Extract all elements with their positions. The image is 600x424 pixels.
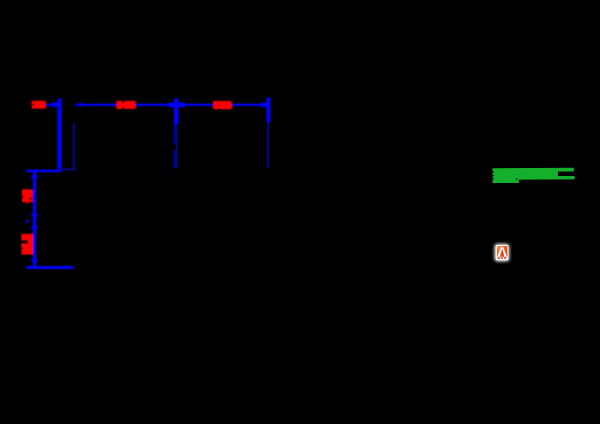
bottom extension line	[26, 266, 74, 269]
leader line of dim 20	[46, 104, 52, 106]
arrowhead down at bottom	[31, 259, 38, 266]
dimension line 140 right segment	[136, 104, 169, 106]
vertical dim top connector	[26, 170, 62, 173]
logo glow	[495, 244, 510, 261]
green wrench logo	[493, 168, 575, 183]
arrowhead left of dim 140	[74, 103, 82, 108]
logo letter A right leg	[502, 247, 507, 257]
arrowhead left of dim 105	[179, 103, 185, 108]
dimension text 20	[32, 101, 46, 109]
dimension line 105 right segment	[232, 104, 261, 106]
logo orange square	[497, 246, 508, 257]
arrowhead right of dim 140	[169, 103, 175, 108]
faint extension line at x176.5	[176, 124, 178, 168]
small blue mark left of arrow junction	[26, 220, 29, 223]
dimension text 105	[213, 101, 232, 109]
dimension line 105 left segment	[185, 104, 214, 106]
logo tiny text	[498, 257, 507, 259]
extension line middle (thick tick)	[174, 99, 179, 125]
extension line left (thick)	[57, 99, 61, 169]
centerline bright segment upper	[174, 124, 176, 144]
faint extension line at x74	[73, 124, 75, 169]
logo inner triangle	[500, 250, 504, 256]
arrowhead up of dim 62.5	[31, 222, 38, 229]
dimension line 140 left segment	[82, 104, 117, 106]
extension line right (thick tick)	[266, 98, 270, 123]
vertical dimension line	[33, 170, 36, 267]
arrowhead up of dim 75	[30, 173, 38, 179]
arrowhead right of dim 105	[261, 103, 266, 108]
logo letter A left leg	[497, 247, 502, 257]
faint extension line at x268	[267, 122, 269, 168]
arrowhead down of dim 75	[31, 214, 38, 221]
logo white card	[496, 245, 509, 260]
dimension text 75	[22, 189, 33, 203]
dimension text 140	[117, 101, 136, 109]
faint object top edge segment	[62, 169, 76, 171]
centerline bright segment lower	[174, 150, 176, 169]
arrowhead of dim 20	[51, 103, 57, 107]
dimension text 62.5	[21, 234, 33, 255]
